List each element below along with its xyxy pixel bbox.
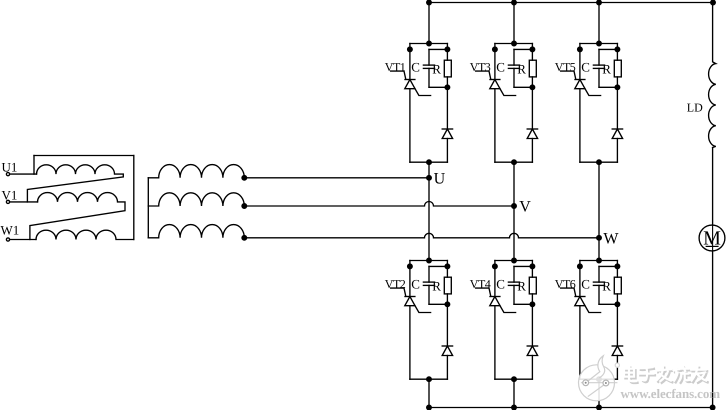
- wire VT6 diode leg: [616, 356, 618, 380]
- wire VT4 cathode leg: [494, 306, 496, 380]
- junction VT2 snubber bottom: [445, 302, 450, 307]
- svg-text:C: C: [496, 277, 505, 292]
- wire phase W line (hops over U,V columns): [244, 233, 599, 238]
- label C (VT3): [496, 60, 505, 75]
- wire VT3 cathode leg: [494, 89, 496, 163]
- svg-text:C: C: [581, 277, 590, 292]
- junction VT4 anode feed: [512, 258, 517, 263]
- capacitor C (VT6 snubber): [593, 266, 604, 304]
- label VT5: [555, 60, 576, 74]
- label C (VT2): [411, 277, 420, 292]
- wire VT1 bottom to VT2 top: [428, 162, 430, 260]
- label R (VT5): [602, 61, 611, 76]
- node V: [512, 198, 532, 215]
- node U: [427, 170, 446, 187]
- junction bottom bus col 2: [512, 405, 517, 410]
- diode D1 (VT1 arm): [442, 129, 452, 139]
- svg-text:www.elecfans.com: www.elecfans.com: [621, 386, 721, 401]
- junction top bus col 1: [427, 0, 432, 5]
- capacitor C (VT3 snubber): [508, 49, 519, 87]
- wire VT6 to bottom bus: [598, 379, 600, 407]
- wire VT2 diode leg: [446, 356, 448, 380]
- svg-text:VT1: VT1: [385, 60, 406, 74]
- wire V1 lead: [10, 201, 38, 203]
- wire VT2 snubber top rail: [429, 265, 447, 267]
- junction bottom bus col 3: [597, 405, 602, 410]
- label VT1: [385, 60, 406, 74]
- junction VT4 snubber bottom: [530, 302, 535, 307]
- wire VT4 module top rail: [495, 260, 533, 262]
- terminal U1: [2, 160, 18, 176]
- wire VT2 left leg upper: [409, 261, 411, 297]
- capacitor C (VT1 snubber): [423, 49, 434, 87]
- junction secondary V output: [242, 204, 247, 209]
- junction top bus LD branch: [711, 0, 716, 5]
- junction VT1 bottom center: [427, 160, 432, 165]
- junction VT4 left leg: [493, 264, 498, 269]
- diode D6 (VT6 arm): [612, 346, 622, 356]
- junction top bus col 2: [512, 0, 517, 5]
- junction VT5 snubber bottom: [615, 85, 620, 90]
- wire VT4 snubber top rail: [514, 265, 532, 267]
- junction VT3 bottom center: [512, 160, 517, 165]
- thyristor VT1: [391, 71, 431, 95]
- wire VT1 module bottom rail: [410, 161, 448, 163]
- junction VT1 snubber top: [445, 47, 450, 52]
- wire U1 lead: [10, 173, 37, 175]
- terminal V1: [2, 188, 18, 204]
- wire bottom DC- bus: [429, 407, 713, 409]
- watermark elecfans logo: [579, 356, 620, 401]
- wire VT4 diode leg: [531, 356, 533, 380]
- wire primary top link: [34, 155, 134, 157]
- wire VT6 module bottom rail: [580, 378, 618, 380]
- wire LD to motor to bottom bus: [712, 148, 714, 408]
- svg-text:C: C: [411, 277, 420, 292]
- wire VT3 right leg to diode: [531, 87, 533, 129]
- wire VT1 left leg upper: [409, 44, 411, 80]
- wire VT3 snubber top rail: [514, 48, 532, 50]
- thyristor VT6: [561, 288, 601, 312]
- thyristor VT2: [391, 288, 431, 312]
- svg-text:U1: U1: [2, 160, 18, 175]
- junction VT2 anode feed: [427, 258, 432, 263]
- svg-text:R: R: [517, 61, 526, 76]
- svg-text:R: R: [517, 278, 526, 293]
- wire VT3 diode leg: [531, 139, 533, 163]
- wire VT2 right leg to diode: [446, 304, 448, 346]
- svg-text:C: C: [411, 60, 420, 75]
- node W: [597, 231, 620, 248]
- junction VT6 bottom center: [597, 377, 602, 382]
- wire VT4 left leg upper: [494, 261, 496, 297]
- wire VT3 module top rail: [495, 43, 533, 45]
- wire top bus to VT3: [513, 3, 515, 44]
- wire VT2 module top rail: [410, 260, 448, 262]
- winding secondary U: [148, 165, 244, 178]
- label VT2: [385, 277, 406, 291]
- wire top DC+ bus: [429, 2, 713, 4]
- junction VT2 left leg: [408, 264, 413, 269]
- svg-text:U: U: [434, 170, 446, 187]
- wire VT2 to bottom bus: [428, 379, 430, 407]
- wire VT6 snubber bottom rail: [599, 303, 617, 305]
- wire VT4 snubber bottom rail: [514, 303, 532, 305]
- capacitor C (VT2 snubber): [423, 266, 434, 304]
- thyristor VT3: [476, 71, 516, 95]
- svg-text:C: C: [496, 60, 505, 75]
- winding secondary W: [148, 225, 244, 238]
- svg-text:LD: LD: [687, 101, 703, 115]
- label VT4: [470, 277, 491, 291]
- wire phase V line (hop over U column): [244, 202, 514, 207]
- wire VT2 snubber bottom rail: [429, 303, 447, 305]
- wire VT1 module top rail: [410, 43, 448, 45]
- wire VT5 snubber top rail: [599, 48, 617, 50]
- junction VT3 left leg: [493, 47, 498, 52]
- junction bottom bus motor branch: [710, 405, 715, 410]
- winding V1 (primary): [30, 193, 125, 240]
- junction VT5 snubber top: [615, 47, 620, 52]
- wire VT4 module bottom rail: [495, 378, 533, 380]
- svg-text:VT5: VT5: [555, 60, 576, 74]
- junction VT6 snubber top: [615, 264, 620, 269]
- svg-text:R: R: [602, 278, 611, 293]
- label VT6: [555, 277, 576, 291]
- junction secondary U output: [242, 176, 247, 181]
- label C (VT6): [581, 277, 590, 292]
- resistor R (VT5 snubber): [614, 44, 621, 88]
- wire VT3 bottom to VT4 top: [513, 162, 515, 260]
- wire VT2 module bottom rail: [410, 378, 448, 380]
- wire VT4 to bottom bus: [513, 379, 515, 407]
- junction secondary W output: [242, 236, 247, 241]
- wire VT5 module bottom rail: [580, 161, 618, 163]
- wire VT3 left leg upper: [494, 44, 496, 80]
- wire VT3 snubber bottom rail: [514, 86, 532, 88]
- wire VT6 module top rail: [580, 260, 618, 262]
- motor M: [699, 225, 725, 251]
- thyristor VT5: [561, 71, 601, 95]
- wire VT5 diode leg: [616, 139, 618, 163]
- diode D2 (VT2 arm): [442, 346, 452, 356]
- svg-text:C: C: [581, 60, 590, 75]
- wire VT3 module bottom rail: [495, 161, 533, 163]
- label R (VT6): [602, 278, 611, 293]
- junction VT5 left leg: [578, 47, 583, 52]
- watermark text dianzifashaoyou: [624, 366, 708, 383]
- label VT3: [470, 60, 491, 74]
- wire VT1 snubber top rail: [429, 48, 447, 50]
- svg-text:VT6: VT6: [555, 277, 576, 291]
- junction VT6 anode feed: [597, 258, 602, 263]
- wire U1 riser to top link: [33, 156, 35, 175]
- svg-text:VT3: VT3: [470, 60, 491, 74]
- wire primary right link: [133, 156, 135, 240]
- junction VT3 snubber top: [530, 47, 535, 52]
- junction VT2 bottom center: [427, 377, 432, 382]
- svg-text:R: R: [432, 278, 441, 293]
- wire VT6 snubber top rail: [599, 265, 617, 267]
- junction VT2 snubber top: [445, 264, 450, 269]
- wire VT5 snubber bottom rail: [599, 86, 617, 88]
- svg-text:VT4: VT4: [470, 277, 491, 291]
- junction VT5 anode feed: [597, 41, 602, 46]
- svg-text:W1: W1: [1, 223, 20, 238]
- wire VT1 cathode leg: [409, 89, 411, 163]
- wire VT5 bottom to VT6 top: [598, 162, 600, 260]
- wire VT6 left leg upper: [579, 261, 581, 297]
- label R (VT4): [517, 278, 526, 293]
- wire VT2 cathode leg: [409, 306, 411, 380]
- svg-text:W: W: [603, 231, 619, 248]
- junction VT5 bottom center: [597, 160, 602, 165]
- label C (VT1): [411, 60, 420, 75]
- junction VT1 snubber bottom: [445, 85, 450, 90]
- junction VT3 anode feed: [512, 41, 517, 46]
- wire top bus to VT1: [428, 3, 430, 44]
- wire VT1 diode leg: [446, 139, 448, 163]
- junction bottom bus col 1: [427, 405, 432, 410]
- resistor R (VT4 snubber): [529, 261, 536, 305]
- diode D3 (VT3 arm): [527, 129, 537, 139]
- wire W1 lead: [10, 239, 36, 241]
- watermark url: [621, 386, 721, 401]
- label C (VT5): [581, 60, 590, 75]
- diode D4 (VT4 arm): [527, 346, 537, 356]
- wire phase U line: [244, 177, 429, 179]
- capacitor C (VT5 snubber): [593, 49, 604, 87]
- wire secondary neutral bus: [147, 178, 149, 238]
- junction top bus col 3: [597, 0, 602, 5]
- wire top bus to VT5: [598, 3, 600, 44]
- label C (VT4): [496, 277, 505, 292]
- svg-text:R: R: [602, 61, 611, 76]
- wire VT5 right leg to diode: [616, 87, 618, 129]
- wire VT5 cathode leg: [579, 89, 581, 163]
- junction VT4 snubber top: [530, 264, 535, 269]
- winding U1 (primary): [27, 165, 123, 202]
- label R (VT1): [432, 61, 441, 76]
- junction VT1 left leg: [408, 47, 413, 52]
- resistor R (VT6 snubber): [614, 261, 621, 305]
- junction VT4 bottom center: [512, 377, 517, 382]
- label R (VT3): [517, 61, 526, 76]
- junction VT6 left leg: [578, 264, 583, 269]
- wire VT5 left leg upper: [579, 44, 581, 80]
- capacitor C (VT4 snubber): [508, 266, 519, 304]
- svg-text:VT2: VT2: [385, 277, 406, 291]
- junction VT3 snubber bottom: [530, 85, 535, 90]
- winding W1 (primary): [36, 230, 134, 239]
- junction VT1 anode feed: [427, 41, 432, 46]
- junction VT6 snubber bottom: [615, 302, 620, 307]
- thyristor VT4: [476, 288, 516, 312]
- wire VT1 snubber bottom rail: [429, 86, 447, 88]
- terminal W1: [1, 223, 20, 242]
- svg-text:R: R: [432, 61, 441, 76]
- winding secondary V: [148, 193, 244, 206]
- inductor LD: [687, 3, 716, 148]
- resistor R (VT2 snubber): [444, 261, 451, 305]
- wire VT1 right leg to diode: [446, 87, 448, 129]
- wire VT6 cathode leg: [579, 306, 581, 380]
- resistor R (VT1 snubber): [444, 44, 451, 88]
- label R (VT2): [432, 278, 441, 293]
- diode D5 (VT5 arm): [612, 129, 622, 139]
- wire VT4 right leg to diode: [531, 304, 533, 346]
- resistor R (VT3 snubber): [529, 44, 536, 88]
- wire VT5 module top rail: [580, 43, 618, 45]
- wire VT6 right leg to diode: [616, 304, 618, 346]
- svg-text:V: V: [519, 198, 531, 215]
